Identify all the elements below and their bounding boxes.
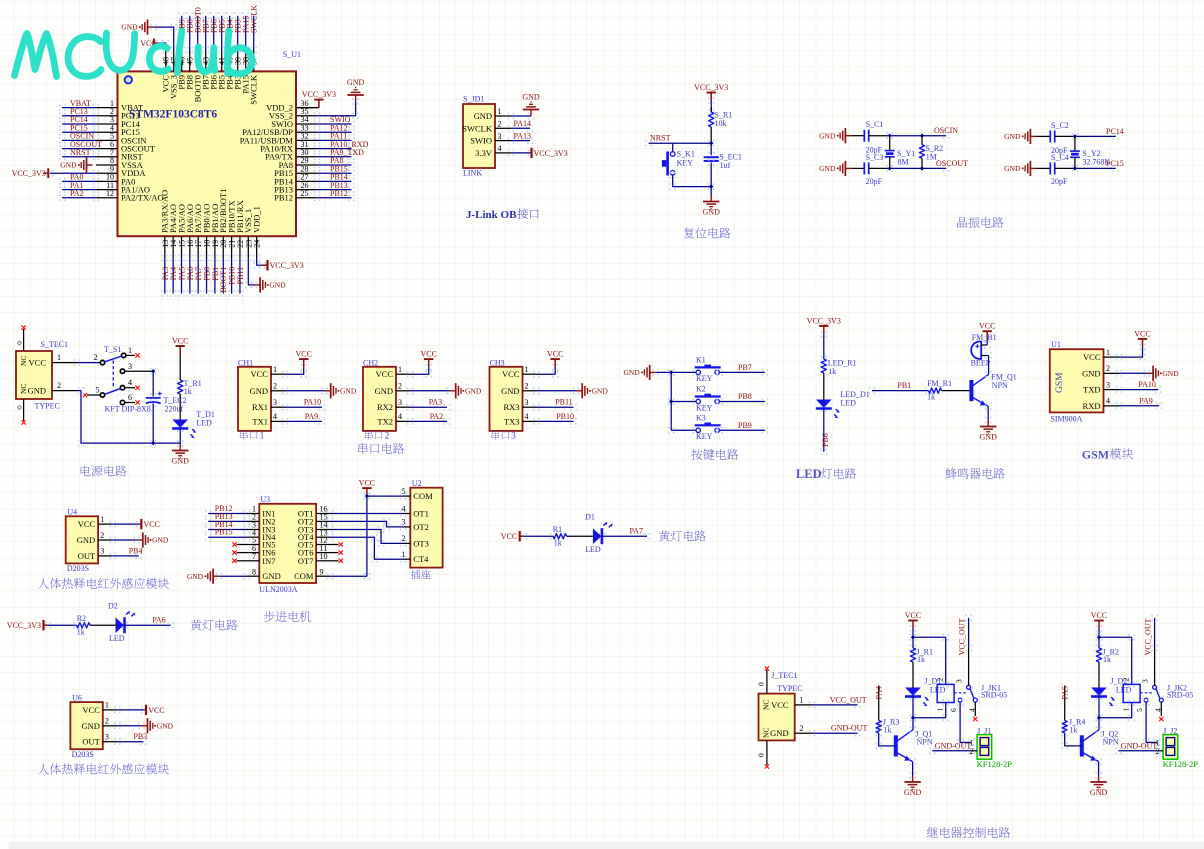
resistor R1 xyxy=(553,534,567,539)
svg-text:LED: LED xyxy=(840,399,856,408)
svg-text:VCC: VCC xyxy=(148,706,164,715)
svg-text:GND: GND xyxy=(501,386,519,396)
svg-text:VCC: VCC xyxy=(1091,611,1107,620)
transistor J_Q1 NPN xyxy=(894,735,898,756)
CH1 pin1 VCC power wire xyxy=(282,371,289,378)
U3 pin 8 (GND) xyxy=(247,575,259,577)
net label BOOT0 xyxy=(194,13,201,20)
ground (power circuit) xyxy=(172,444,188,456)
svg-text:7: 7 xyxy=(252,552,256,561)
svg-text:OSCIN: OSCIN xyxy=(934,126,958,135)
MCU pin 39 (PB3) wire xyxy=(237,50,239,71)
CH3 pin 4 (TX3) xyxy=(523,420,537,422)
MCU pin 17 (PA7/AO) wire xyxy=(197,236,199,258)
net label PB6 xyxy=(210,13,217,20)
title PIR module 1 xyxy=(38,578,169,589)
svg-text:VCC: VCC xyxy=(905,611,921,620)
svg-text:VCC_3V3: VCC_3V3 xyxy=(12,169,46,178)
relay pin3 wire to VCC_OUT xyxy=(1154,648,1156,685)
U3 pin 5 (IN5) xyxy=(247,544,259,546)
svg-text:LINK: LINK xyxy=(463,169,482,178)
U4 pin 3 (OUT) xyxy=(98,555,113,557)
wire base xyxy=(1061,730,1068,737)
net label PA0 xyxy=(59,178,66,185)
svg-text:3: 3 xyxy=(100,547,104,556)
svg-text:VCC: VCC xyxy=(376,369,394,379)
net label PB14 xyxy=(314,178,321,185)
power VCC_3V3 (D2) xyxy=(42,620,44,630)
MCU pin 37 (SWCLK) wire xyxy=(253,50,255,71)
CH2 pin 3 (RX2) xyxy=(396,406,410,408)
wire collector to node xyxy=(1096,726,1103,733)
net label PB1 xyxy=(212,255,219,262)
power VCC_3V3 (reset) xyxy=(707,93,716,101)
svg-text:SWCLK: SWCLK xyxy=(249,74,259,105)
svg-text:GND: GND xyxy=(474,111,492,121)
svg-text:VCC_OUT: VCC_OUT xyxy=(958,618,967,655)
svg-text:5: 5 xyxy=(1135,708,1144,712)
svg-text:GND: GND xyxy=(81,721,99,731)
svg-text:OT7: OT7 xyxy=(298,556,314,566)
svg-text:TXD: TXD xyxy=(1083,385,1100,395)
svg-text:U3: U3 xyxy=(260,495,270,504)
net label OSCOUT xyxy=(59,145,66,152)
push button K3 xyxy=(696,428,700,432)
wire LED_D1 to PB6 xyxy=(821,405,828,412)
svg-text:GND-OUT: GND-OUT xyxy=(935,741,972,750)
U4 pin 1 (VCC) xyxy=(98,523,113,525)
net label VBAT xyxy=(59,104,66,111)
wire VCC to R2 xyxy=(45,622,52,629)
MCU pin 23 (VSS_1) wire xyxy=(247,236,249,258)
TEC1 pin1 wire xyxy=(52,362,77,364)
wire VCC down xyxy=(1096,625,1103,632)
MCU pin 22 (PB11/RX) wire xyxy=(239,236,241,258)
net label OSCIN xyxy=(59,137,66,144)
CH1 pin 1 (VCC) xyxy=(271,373,285,375)
ground (C2) xyxy=(1025,129,1036,144)
U1 pin3 wire to PA10 xyxy=(1116,386,1123,393)
svg-text:2: 2 xyxy=(273,382,277,391)
svg-text:5: 5 xyxy=(402,487,406,496)
svg-text:VCC: VCC xyxy=(359,479,375,488)
svg-text:VCC: VCC xyxy=(771,700,789,710)
logo MCUclub xyxy=(15,31,253,77)
svg-text:GSM: GSM xyxy=(1055,372,1065,393)
svg-text:FM_R1: FM_R1 xyxy=(927,379,952,388)
title stepper motor xyxy=(264,611,311,622)
U3 pin 2 (IN2) xyxy=(247,520,259,522)
CH3 pin3 wire to PB11 xyxy=(533,404,540,411)
net label PB5 xyxy=(218,13,225,20)
MCU pin 25 (PB12) wire xyxy=(296,197,317,199)
wire gnd to key bus xyxy=(653,369,660,376)
svg-text:NC: NC xyxy=(19,356,28,366)
svg-text:1uf: 1uf xyxy=(720,161,731,170)
svg-text:3: 3 xyxy=(128,362,132,371)
buzzer FM_B1 xyxy=(971,342,981,359)
net label PA1 xyxy=(59,186,66,193)
CH1 pin 4 (TX1) xyxy=(271,420,285,422)
U6 pin2 gnd wire xyxy=(114,723,121,730)
title key circuit xyxy=(691,449,738,460)
ground (reset) xyxy=(703,195,719,207)
wire bus to K1 xyxy=(668,369,675,376)
junction PC15/Y2 xyxy=(1073,166,1077,170)
MCU corner circle xyxy=(125,76,132,83)
svg-text:D1: D1 xyxy=(585,512,595,521)
wire LED_R1 to LED_D1 xyxy=(823,373,825,400)
wire OT2 to U2 xyxy=(327,518,334,525)
U1 pin2 gnd wire xyxy=(1116,370,1123,377)
svg-text:TX2: TX2 xyxy=(377,416,393,426)
svg-text:PA5: PA5 xyxy=(1061,686,1070,700)
svg-text:VCC_3V3: VCC_3V3 xyxy=(694,83,728,92)
wire U3 COM pin9 xyxy=(327,573,334,580)
U3 pin 7 no-connect xyxy=(237,560,248,562)
wire LED to rail xyxy=(177,425,184,432)
svg-text:GND: GND xyxy=(340,386,357,395)
JD1 pin1 gnd wire xyxy=(508,113,515,120)
svg-text:SIM900A: SIM900A xyxy=(1050,414,1082,423)
svg-text:U4: U4 xyxy=(67,508,77,517)
resistor T_R1 xyxy=(178,380,183,394)
MCU pin 40 (PB4) wire xyxy=(229,50,231,71)
capacitor T_EC2 xyxy=(146,398,161,404)
junction R2 top xyxy=(920,134,924,138)
MCU pin 15 (PA5/AO) wire xyxy=(181,236,183,258)
svg-text:20pF: 20pF xyxy=(1051,177,1068,186)
CH3 pin 3 (RX3) xyxy=(523,406,537,408)
svg-text:GND: GND xyxy=(77,535,95,545)
svg-text:PA7: PA7 xyxy=(630,527,644,536)
resistor J_R4 xyxy=(1064,686,1066,721)
net label PB11 xyxy=(237,255,244,262)
wire VCC to R1 xyxy=(708,97,715,104)
svg-text:NRST: NRST xyxy=(650,134,671,143)
MCU pin24 VDD_1 VCC_3V3 power xyxy=(253,255,260,262)
MCU pin 19 (PB1/AO) wire xyxy=(214,236,216,258)
svg-text:9: 9 xyxy=(320,567,324,576)
U3 pin8 gnd symbol xyxy=(208,569,219,584)
net label SWCLK xyxy=(250,13,257,20)
svg-text:TX3: TX3 xyxy=(504,416,520,426)
svg-text:PA10: PA10 xyxy=(304,398,322,407)
junction R2 bottom xyxy=(920,166,924,170)
wire cap to rail xyxy=(150,400,157,407)
LED J_D1 xyxy=(905,688,921,696)
relay pin3 wire to VCC_OUT xyxy=(968,648,970,685)
JD1 pin1 gnd symbol xyxy=(523,104,539,116)
MCU pin 30 (PA9/TX) wire xyxy=(296,156,317,158)
wire cap to gnd node xyxy=(708,159,715,166)
net label PB9 xyxy=(178,13,185,20)
wire C1 to OSCIN node xyxy=(869,135,890,137)
svg-text:S_U1: S_U1 xyxy=(283,50,301,59)
key bus vertical wire xyxy=(668,369,675,376)
MCU pin 26 (PB13) wire xyxy=(296,189,317,191)
net label PA5 xyxy=(178,255,185,262)
svg-text:4: 4 xyxy=(525,412,529,421)
svg-text:S_Y2: S_Y2 xyxy=(1082,149,1100,158)
junction rail xyxy=(151,441,155,445)
CH1 pin3 wire to PA10 xyxy=(282,404,289,411)
capacitor S_C4 xyxy=(1050,162,1054,174)
net label PA6 xyxy=(187,255,194,262)
junction COM U2 xyxy=(365,494,369,498)
MCU pin48 VCC power xyxy=(157,40,164,47)
CH3 pin1 VCC power wire xyxy=(533,371,540,378)
svg-text:R1: R1 xyxy=(553,525,562,534)
U3 pin 15 (OT2) xyxy=(316,520,330,522)
MCU pin 29 (PA8) wire xyxy=(296,164,317,166)
net label SWIO xyxy=(314,121,321,128)
svg-text:3: 3 xyxy=(525,398,529,407)
MCU pin 5 (OSCIN) wire xyxy=(96,139,118,141)
svg-text:K1: K1 xyxy=(696,355,706,364)
junction VCC branch xyxy=(1097,635,1101,639)
CH2 pin4 wire to PA2 xyxy=(407,418,414,425)
svg-text:R2: R2 xyxy=(77,614,86,623)
MCU pin 1 (VBAT) wire xyxy=(96,107,118,109)
U4 pin1 VCC power xyxy=(109,521,116,528)
wire VCC to R1 xyxy=(521,533,528,540)
svg-text:LED: LED xyxy=(109,634,125,643)
svg-text:PB7: PB7 xyxy=(738,363,752,372)
svg-text:6: 6 xyxy=(949,708,958,712)
svg-text:D203S: D203S xyxy=(67,564,89,573)
MCU pin23 VSS_1 gnd wire xyxy=(245,255,252,262)
relay switch J_JK2 xyxy=(1140,692,1152,694)
junction collector node xyxy=(911,716,915,720)
svg-text:4: 4 xyxy=(128,378,132,387)
svg-text:D203S: D203S xyxy=(72,750,94,759)
svg-text:COM: COM xyxy=(294,571,314,581)
svg-text:VCC: VCC xyxy=(82,705,100,715)
crystal S_Y1 xyxy=(889,136,891,151)
svg-text:GND: GND xyxy=(121,23,138,32)
svg-text:J-Link OB: J-Link OB xyxy=(466,209,517,221)
MCU pin 32 (PA11/USB/DM) wire xyxy=(296,139,317,141)
wire collector to buzzer xyxy=(985,371,992,378)
svg-text:3: 3 xyxy=(511,431,516,441)
svg-text:GND: GND xyxy=(770,728,788,738)
transistor FM_Q1 NPN xyxy=(969,380,973,401)
JD1 pin4 VCC_3V3 power xyxy=(508,150,515,157)
svg-text:VCC: VCC xyxy=(979,322,995,331)
U1 pin 4 (RXD) xyxy=(1104,405,1120,407)
wire OSCOUT net xyxy=(886,165,893,172)
svg-text:VCC: VCC xyxy=(501,532,517,541)
svg-text:1k: 1k xyxy=(184,387,192,396)
svg-text:GND: GND xyxy=(250,386,268,396)
CH1 pin2 gnd symbol xyxy=(325,383,336,398)
relay pin4 no-connect wire xyxy=(974,702,976,716)
push button S_K1 xyxy=(670,152,675,157)
svg-text:3.3V: 3.3V xyxy=(475,148,493,158)
net label PA11 xyxy=(314,137,321,144)
svg-text:GND-OUT: GND-OUT xyxy=(831,724,868,733)
svg-text:PA14: PA14 xyxy=(514,119,532,128)
svg-text:KEY: KEY xyxy=(696,374,713,383)
svg-text:NPN: NPN xyxy=(1103,738,1119,747)
wire NRST to key xyxy=(672,143,674,152)
U4 pin 2 (GND) xyxy=(98,539,113,541)
svg-text:PA13: PA13 xyxy=(514,131,532,140)
title crystal circuit xyxy=(957,217,1003,228)
label socket xyxy=(411,570,430,579)
svg-text:1k: 1k xyxy=(828,367,836,376)
svg-text:OUT: OUT xyxy=(82,737,100,747)
svg-text:SWIO: SWIO xyxy=(470,136,492,146)
svg-text:OSCOUT: OSCOUT xyxy=(936,159,968,168)
wire GND-OUT to terminal xyxy=(1115,748,1122,755)
svg-text:VCC: VCC xyxy=(1134,329,1150,338)
wire base xyxy=(875,730,882,737)
svg-text:PA2: PA2 xyxy=(70,189,84,198)
scrollbar xyxy=(0,842,1204,849)
ground (C3) xyxy=(840,161,851,176)
svg-text:2: 2 xyxy=(525,382,529,391)
svg-text:OUT: OUT xyxy=(78,551,96,561)
svg-text:LED: LED xyxy=(796,467,822,481)
svg-text:3: 3 xyxy=(402,518,406,527)
JD1 pin3 wire to PA13 xyxy=(508,137,515,144)
svg-text:S_C1: S_C1 xyxy=(866,120,884,129)
svg-text:1: 1 xyxy=(1122,708,1131,712)
svg-text:VDD_1: VDD_1 xyxy=(252,206,262,233)
net label PB8 xyxy=(186,13,193,20)
JD1 pin 4 (3.3V) xyxy=(495,152,511,154)
svg-text:PA3: PA3 xyxy=(429,398,443,407)
U2 pin 2 (OT3) xyxy=(403,542,410,544)
svg-text:PB10: PB10 xyxy=(556,412,574,421)
svg-text:GND: GND xyxy=(28,386,46,396)
svg-text:KEY: KEY xyxy=(696,403,713,412)
MCU pin 21 (PB10/TX) wire xyxy=(231,236,233,258)
TEC1 bottom pin xyxy=(23,399,25,421)
svg-text:S_JD1: S_JD1 xyxy=(463,95,484,104)
svg-text:U6: U6 xyxy=(72,693,82,702)
resistor J_R1 xyxy=(910,648,915,662)
U2 pin 5 (COM) xyxy=(403,495,410,497)
svg-text:VCC_OUT: VCC_OUT xyxy=(1144,618,1153,655)
svg-text:2: 2 xyxy=(100,531,104,540)
LED J_D2 xyxy=(1091,688,1107,696)
MCU pin 18 (PB0/AO) wire xyxy=(206,236,208,258)
CH1 pin2 gnd wire xyxy=(282,388,289,395)
svg-text:S_C3: S_C3 xyxy=(866,153,884,162)
svg-text:1: 1 xyxy=(398,365,402,374)
wire PC14 net xyxy=(1072,133,1079,140)
crystal S_Y2 xyxy=(1074,136,1076,150)
MCU pin 10 (PA0) wire xyxy=(96,180,118,182)
U1 pin 1 (VCC) xyxy=(1104,356,1120,358)
wire R1 to D1 xyxy=(567,535,593,537)
svg-text:GND: GND xyxy=(465,386,482,395)
svg-text:2: 2 xyxy=(1106,364,1110,373)
svg-text:4: 4 xyxy=(402,504,406,513)
TEC1 pin2 wire xyxy=(52,390,77,392)
svg-text:GND: GND xyxy=(904,788,922,797)
ground (relay) xyxy=(904,776,920,788)
svg-text:3: 3 xyxy=(498,132,502,141)
U4 pin3 wire to PB4 xyxy=(109,553,116,560)
wire emitter to gnd xyxy=(985,403,992,410)
MCU pin 13 (PA3/RX/AO) wire xyxy=(164,236,166,258)
CH2 pin3 wire to PA3 xyxy=(407,404,414,411)
net label NRST xyxy=(59,154,66,161)
MCU pin47 gnd wire xyxy=(150,24,157,31)
U6 pin1 VCC power xyxy=(114,707,121,714)
wire K2 to PB8 xyxy=(716,398,723,405)
wire D2 to PA6 xyxy=(122,622,129,629)
svg-text:BEEP: BEEP xyxy=(971,359,991,368)
svg-text:VCC: VCC xyxy=(1083,352,1101,362)
title buzzer circuit xyxy=(946,468,1005,479)
J_TEC1 pin1 wire VCC_OUT xyxy=(795,704,812,706)
svg-text:U1: U1 xyxy=(1051,340,1061,349)
net label PA7 xyxy=(195,255,202,262)
U1 pin2 gnd symbol xyxy=(1147,366,1158,381)
svg-text:12: 12 xyxy=(106,189,114,198)
junction key bus K2 xyxy=(669,399,673,403)
net label PA15 xyxy=(242,13,249,20)
svg-text:PA4: PA4 xyxy=(875,686,884,700)
CH3 pin4 wire to PB10 xyxy=(533,418,540,425)
U1 pin1 VCC power wire xyxy=(1116,354,1123,361)
junction key bus K1 xyxy=(669,370,673,374)
MCU pin 43 (PB7) wire xyxy=(205,50,207,71)
wire OSCIN net xyxy=(886,132,893,139)
svg-text:J_TEC1: J_TEC1 xyxy=(771,671,797,680)
TEC1 top pin xyxy=(23,329,25,351)
wire to gnd xyxy=(710,187,712,195)
svg-text:GND: GND xyxy=(187,572,204,581)
U3 pin 16 (OT1) xyxy=(316,513,330,515)
resistor J_R3 xyxy=(878,686,880,721)
svg-text:OT2: OT2 xyxy=(413,522,429,532)
wire VCC to U2 COM xyxy=(364,493,371,500)
svg-text:2: 2 xyxy=(94,353,98,362)
svg-text:PB11: PB11 xyxy=(236,267,245,285)
svg-text:PB3: PB3 xyxy=(133,732,147,741)
svg-text:K2: K2 xyxy=(696,385,706,394)
U6 pin 2 (GND) xyxy=(103,725,118,727)
U3 pin 6 no-connect xyxy=(237,552,248,554)
svg-text:2: 2 xyxy=(385,431,390,441)
U3 pin 6 (IN6) xyxy=(247,552,259,554)
svg-text:PA2/TX/AO: PA2/TX/AO xyxy=(121,193,164,203)
svg-text:LED: LED xyxy=(196,419,212,428)
label 2 xyxy=(365,430,383,439)
CH3 pin2 gnd symbol xyxy=(576,383,587,398)
wire collector to node xyxy=(910,726,917,733)
svg-text:ULN2003A: ULN2003A xyxy=(259,585,297,594)
LED D1 xyxy=(593,528,601,544)
resistor S_R2 xyxy=(921,136,923,145)
MCU pin 44 (BOOT0) wire xyxy=(197,50,199,71)
power VCC (buzzer) xyxy=(983,331,992,339)
switch pin5 wire xyxy=(87,394,100,396)
net label PB0 xyxy=(203,255,210,262)
CH1 pin4 wire to PA9 xyxy=(282,418,289,425)
CH2 pin1 VCC power wire xyxy=(407,371,414,378)
svg-text:GND-OUT: GND-OUT xyxy=(1121,741,1158,750)
svg-text:KEY: KEY xyxy=(696,432,713,441)
wire OT4 to U2 xyxy=(327,534,334,541)
title yellow light circuit 1 xyxy=(659,530,706,541)
